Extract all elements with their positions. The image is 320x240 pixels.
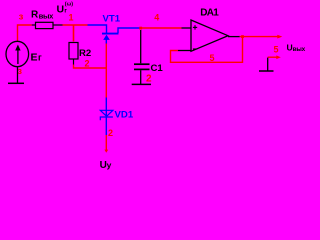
svg-text:г: г [38,53,42,63]
svg-text:2: 2 [108,128,113,138]
svg-text:U: U [57,3,65,15]
label Uвых [287,43,306,53]
label Eг [31,52,43,64]
wire: resistor to VT1 source (red part) [63,24,88,26]
feedback wire (red) [171,37,243,63]
wire: R2 bottom to VT1 gate (red) [74,65,107,69]
svg-text:VD1: VD1 [115,110,134,121]
terminal Uу (arrow tip) [104,150,108,153]
ground (output side) [259,58,274,71]
svg-text:1: 1 [69,12,74,22]
svg-text:E: E [31,52,38,64]
label Uг(ω) [57,2,74,16]
svg-text:5: 5 [210,53,215,63]
svg-text:2: 2 [85,59,90,69]
diode VD1 (zener) [100,110,113,120]
ground (under C1) [132,83,151,85]
svg-text:C1: C1 [151,63,164,74]
terminal output arrow [277,35,282,39]
svg-text:DA1: DA1 [200,8,219,19]
wire: - input (black) [178,50,191,52]
wire: Eг bottom to ground (black) [17,67,19,83]
svg-text:VT1: VT1 [103,14,121,25]
junction at C1 tap [139,27,142,30]
wire: VT1 gate down (red) [105,44,107,98]
svg-text:2: 2 [146,73,152,84]
source Eг (circle with arrow) [6,41,29,66]
wire: output (red) [240,36,279,38]
label Uу [100,160,112,171]
wire: VD1 to Uу terminal (red) [105,135,107,150]
resistor R2 [69,43,78,65]
capacitor C1 [134,30,150,84]
svg-text:з: з [18,66,23,76]
op-amp output wire (black) [228,36,240,38]
wire: into + input (black) [182,27,192,29]
wire: R2 top lead from node 1 (red) [73,25,75,42]
transistor VT1 (JFET) [88,25,140,44]
svg-text:(ω): (ω) [65,2,73,8]
svg-text:у: у [107,160,112,170]
op-amp DA1 [191,20,228,51]
svg-text:R2: R2 [79,48,91,59]
svg-text:вых: вых [39,11,55,20]
svg-text:5: 5 [274,45,279,55]
svg-text:вых: вых [293,46,306,53]
junction at output node [241,35,244,38]
label Rвых [31,9,54,20]
wire: blue through zener VD1 [105,98,107,136]
wire: Eг top to resistor Rвых (red) [18,25,32,42]
ground (under Eг) [8,82,24,84]
svg-text:з: з [19,11,24,22]
resistor Rвых [32,22,63,28]
svg-text:4: 4 [154,12,159,22]
output ground red lead with arrow [268,56,278,58]
wire: VT1 drain to op-amp + input (red) [140,27,182,29]
